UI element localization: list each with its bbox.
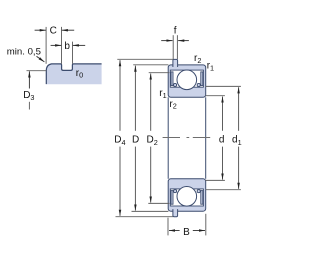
svg-text:b: b — [64, 41, 70, 52]
D2 lower extension — [148, 202, 169, 204]
svg-text:D4: D4 — [114, 135, 125, 147]
centerline dash-dot — [163, 137, 211, 139]
D2 upper extension — [149, 72, 170, 74]
B right arrow — [193, 230, 205, 232]
d1 upper extension — [206, 85, 241, 87]
D2 dimension line — [150, 74, 152, 131]
B extension line right — [205, 214, 207, 236]
D lower extension — [132, 210, 169, 212]
svg-text:min. 0,5: min. 0,5 — [7, 46, 41, 57]
svg-text:D2: D2 — [147, 135, 158, 147]
groove detail outline — [46, 64, 101, 84]
D dimension line — [134, 66, 136, 131]
f left arrow — [161, 40, 172, 42]
svg-text:r2: r2 — [194, 53, 201, 65]
svg-text:f: f — [174, 26, 177, 37]
svg-text:D: D — [132, 135, 139, 146]
left face line between halves — [167, 97, 169, 179]
svg-text:B: B — [183, 227, 190, 238]
groove detail fill — [46, 64, 101, 84]
C dimension left arrow — [35, 29, 46, 31]
bearing lower half (mirrored) — [168, 179, 206, 217]
extension line C left — [45, 27, 47, 64]
D3 level line — [27, 70, 47, 72]
extension line C right / b left — [61, 27, 63, 64]
f extension line right — [176, 35, 178, 59]
B left arrow — [169, 230, 180, 232]
D4 upper extension — [117, 58, 173, 60]
svg-text:d1: d1 — [232, 135, 242, 147]
svg-text:D3: D3 — [23, 90, 34, 102]
B extension line left — [167, 218, 169, 236]
svg-text:d: d — [219, 135, 225, 146]
svg-text:r1: r1 — [159, 88, 166, 100]
f extension line left — [172, 35, 174, 59]
D3 dimension line upper — [28, 71, 30, 88]
d1 lower extension — [206, 189, 241, 191]
b dimension right arrow — [73, 44, 86, 46]
min 0,5 leader arrow — [37, 56, 45, 62]
f right arrow — [178, 40, 189, 42]
d dimension line — [222, 97, 224, 131]
svg-text:r1: r1 — [207, 60, 214, 72]
C dimension right arrow — [62, 29, 74, 31]
D4 lower extension — [116, 216, 174, 218]
b dimension left arrow — [51, 44, 62, 46]
d1 dimension line — [238, 87, 240, 131]
D4 dimension line — [119, 60, 121, 131]
right face line between halves — [205, 97, 207, 179]
extension line b right — [72, 42, 74, 64]
svg-text:C: C — [50, 26, 57, 37]
d upper extension — [206, 95, 225, 97]
svg-text:r2: r2 — [169, 99, 176, 111]
D upper extension — [133, 64, 168, 66]
bearing upper half — [168, 59, 206, 97]
d lower extension — [206, 179, 225, 181]
D3 dimension line lower — [28, 102, 30, 110]
